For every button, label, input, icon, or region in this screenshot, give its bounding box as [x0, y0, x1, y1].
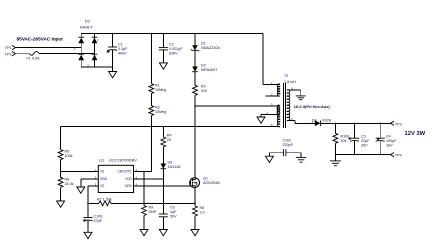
resistor R5 100k — [58, 150, 72, 160]
svg-text:10Meg: 10Meg — [155, 110, 166, 114]
svg-text:F1 0.5A: F1 0.5A — [27, 57, 40, 61]
pin number specks transformer — [74, 38, 314, 127]
wire Q1 source down — [194, 188, 196, 207]
capacitor C6 1uF — [159, 206, 177, 230]
svg-text:C100: C100 — [94, 215, 103, 219]
resistor R8 3.0 — [193, 206, 205, 216]
capacitor C2 — [159, 34, 183, 63]
svg-text:D2: D2 — [85, 20, 90, 24]
wire aux to R4 — [162, 127, 164, 138]
capacitor C101 (Y-cap) — [269, 139, 301, 157]
wire R3 down to CBC line — [150, 116, 152, 172]
earth ground output — [330, 154, 341, 165]
wire R2 down to Q1 drain (drain node vertical) — [194, 95, 196, 178]
svg-text:D1: D1 — [201, 42, 206, 46]
wire U1 CS down — [88, 185, 98, 187]
svg-text:1.8 mH: 1.8 mH — [284, 80, 296, 84]
ground C6 — [159, 230, 167, 236]
resistor R4 20 — [161, 134, 172, 148]
aux winding W3 — [277, 114, 280, 127]
test point TP2 — [5, 51, 16, 56]
svg-text:R4: R4 — [167, 134, 172, 138]
transformer T2 — [266, 74, 297, 128]
resistor R6 24.0k — [58, 177, 73, 187]
svg-text:TP1: TP1 — [5, 46, 12, 50]
diode D2b (right top) — [92, 38, 98, 44]
resistor R7 1.50k (horizontal, CS filter) — [88, 198, 195, 206]
svg-text:3.0: 3.0 — [200, 211, 205, 215]
ground R9 — [140, 230, 148, 236]
svg-text:U1: U1 — [99, 157, 105, 162]
wire R1-R3 — [150, 94, 152, 106]
svg-text:22µF: 22µF — [361, 139, 370, 143]
wire R6 to ground — [60, 187, 62, 201]
resistor R2 510 — [193, 84, 208, 95]
wire secondary top to earth — [287, 89, 301, 91]
wire VS line — [61, 171, 99, 173]
wire DRV to Q1 gate — [134, 185, 191, 187]
ground R6 — [57, 201, 65, 207]
test point TP4 — [390, 153, 401, 158]
svg-text:R100: R100 — [341, 134, 350, 138]
svg-text:C2: C2 — [169, 43, 174, 47]
wire bridge bottom rail — [81, 66, 112, 68]
resistor R100 10k — [333, 123, 349, 154]
svg-text:400V: 400V — [118, 52, 127, 56]
pin stub 2 — [266, 95, 280, 97]
diode D6 1N4148 — [161, 161, 181, 170]
wire top rail drop to transformer — [262, 34, 264, 85]
ground below C2 — [159, 63, 167, 69]
svg-text:100µF: 100µF — [386, 139, 397, 143]
svg-text:TP4: TP4 — [395, 154, 402, 158]
svg-text:R1: R1 — [155, 84, 160, 88]
svg-text:630V: 630V — [169, 52, 178, 56]
svg-text:VDD: VDD — [125, 177, 132, 181]
wire TP1 to bridge — [15, 47, 81, 49]
svg-text:DNP: DNP — [149, 210, 157, 214]
capacitor C4 — [376, 123, 398, 154]
transistor Q1 AOU3N60 — [190, 177, 220, 188]
ground aux — [257, 117, 265, 123]
svg-text:TP3: TP3 — [395, 122, 402, 126]
wire top rail — [81, 33, 263, 35]
svg-text:TP2: TP2 — [5, 53, 12, 57]
diode D2d (right bottom) — [92, 55, 98, 61]
test point TP1 — [5, 45, 16, 50]
svg-text:220pF: 220pF — [283, 143, 294, 147]
core lines — [282, 83, 284, 128]
wire secondary bottom to D4 — [287, 119, 295, 121]
svg-text:R3: R3 — [155, 106, 160, 110]
ground C101 left (primary) — [265, 153, 273, 163]
wire aux bottom line — [61, 126, 280, 128]
svg-text:R5: R5 — [65, 150, 70, 154]
secondary winding W4 — [287, 90, 290, 121]
test point TP3 — [390, 121, 401, 126]
svg-text:47pF: 47pF — [94, 219, 103, 223]
svg-text:C3: C3 — [361, 134, 366, 138]
wire drain node to primary bottom — [195, 105, 280, 107]
svg-text:CS: CS — [100, 184, 104, 188]
wire D3-R2 — [194, 72, 196, 86]
svg-text:R8: R8 — [200, 206, 205, 210]
svg-text:DRV: DRV — [125, 184, 133, 188]
svg-text:T2: T2 — [284, 74, 288, 78]
right leg — [94, 34, 96, 68]
svg-text:50V: 50V — [170, 215, 177, 219]
svg-text:R2: R2 — [201, 84, 206, 88]
svg-text:20: 20 — [167, 138, 171, 142]
primary winding W2 — [277, 105, 280, 115]
primary winding W1 — [277, 84, 280, 96]
ground U1 — [77, 187, 85, 193]
wire CBC/NTC line — [134, 171, 152, 173]
svg-text:1N4148: 1N4148 — [168, 165, 181, 169]
wire R4 to D6 — [162, 147, 164, 164]
capacitor C1 — [107, 34, 129, 68]
earth ground C101 right — [296, 153, 307, 163]
wire output bottom rail — [335, 154, 390, 156]
diode D4 SS28 — [312, 118, 331, 126]
svg-text:85VAC-265VAC Input: 85VAC-265VAC Input — [17, 37, 64, 43]
ground below C1 — [109, 67, 117, 78]
svg-text:D3: D3 — [201, 64, 206, 68]
svg-text:C101: C101 — [283, 139, 292, 143]
ground C100 — [84, 232, 92, 238]
wire TP2 to fuse — [15, 53, 29, 55]
svg-text:16:2:3(Pri:Sec:Aux): 16:2:3(Pri:Sec:Aux) — [294, 104, 331, 109]
svg-text:CBC/NTC: CBC/NTC — [118, 170, 133, 174]
op-amp U1 UCC28700DBV box — [95, 157, 138, 192]
ground R8 — [191, 230, 199, 236]
svg-text:3.3µF: 3.3µF — [118, 47, 128, 51]
diode D2c (left bottom) — [78, 55, 84, 61]
resistor R9 DNP — [142, 206, 157, 216]
svg-text:10k: 10k — [341, 139, 347, 143]
svg-text:UCC28700DBV: UCC28700DBV — [109, 157, 137, 162]
svg-text:C1: C1 — [118, 43, 123, 47]
bridge rectifier D2 RH06-T — [78, 20, 97, 68]
diode D3 MRA4007 — [192, 64, 217, 73]
svg-text:AOU3N60: AOU3N60 — [203, 181, 220, 185]
svg-text:SMAZ230A: SMAZ230A — [201, 46, 220, 50]
diode D2a (left top) — [78, 38, 84, 44]
svg-text:1µF: 1µF — [170, 210, 177, 214]
wire R5 to junction — [60, 160, 62, 178]
svg-text:Q1: Q1 — [203, 177, 208, 181]
svg-text:12V 3W: 12V 3W — [405, 131, 426, 137]
svg-text:C4: C4 — [386, 134, 391, 138]
zener D1 — [191, 34, 220, 52]
svg-text:D6: D6 — [168, 161, 173, 165]
wire fuse to bridge — [39, 53, 95, 55]
svg-text:510: 510 — [201, 89, 207, 93]
svg-text:SS28: SS28 — [322, 118, 331, 122]
wire U1 GND to ground — [81, 178, 99, 180]
fuse F1 — [30, 52, 40, 56]
svg-text:C6: C6 — [170, 206, 175, 210]
svg-text:VS: VS — [100, 170, 104, 174]
wire aux top to ground — [261, 113, 280, 115]
resistor R3 10Meg — [149, 106, 166, 116]
svg-text:GND: GND — [100, 177, 108, 181]
svg-text:0.022µF: 0.022µF — [169, 47, 183, 51]
svg-text:R6: R6 — [65, 177, 70, 181]
svg-text:10Meg: 10Meg — [155, 88, 166, 92]
wire D1-D3 — [194, 50, 196, 66]
wire D6 to VDD node — [162, 169, 164, 214]
wire VDD line — [134, 178, 164, 180]
svg-text:100k: 100k — [65, 154, 73, 158]
wire NTC to R9 — [143, 172, 145, 206]
svg-text:MRA4007: MRA4007 — [201, 68, 217, 72]
earth ground secondary — [296, 96, 306, 100]
capacitor C3 — [348, 123, 370, 154]
svg-text:R9: R9 — [149, 206, 154, 210]
svg-text:16V: 16V — [386, 143, 393, 147]
svg-text:25V: 25V — [361, 143, 368, 147]
resistor R1 10Meg — [149, 34, 166, 94]
wire output top rail — [321, 122, 391, 124]
capacitor C100 47pF — [83, 215, 102, 233]
left leg — [80, 34, 82, 68]
svg-text:24.0k: 24.0k — [65, 182, 74, 186]
svg-text:RH06-T: RH06-T — [80, 26, 94, 30]
svg-text:R7 1.50k: R7 1.50k — [97, 198, 112, 202]
